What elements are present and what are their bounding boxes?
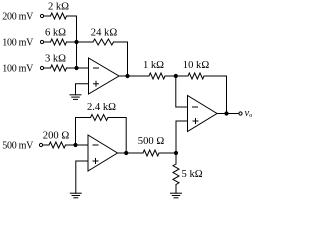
svg-text:2.4 kΩ: 2.4 kΩ	[87, 102, 116, 113]
wire node row2 to R4	[77, 41, 94, 43]
resistor R1 2 kOhm	[51, 13, 67, 19]
wire R6 to U3 output node	[204, 76, 227, 114]
terminal source 1	[40, 14, 43, 17]
svg-text:100 mV: 100 mV	[2, 38, 34, 49]
U3 plus sign	[193, 120, 198, 122]
wire terminal2 to R2	[44, 41, 51, 43]
resistor R8 2.4 kOhm feedback U2	[91, 115, 109, 121]
wire R2 to bus	[67, 41, 77, 43]
junction node bus row2	[74, 40, 78, 44]
svg-text:6 kΩ: 6 kΩ	[45, 28, 66, 39]
ground U2 plus input	[70, 192, 81, 194]
ground node C divider	[171, 192, 182, 194]
U3 minus sign	[193, 106, 198, 108]
terminal source 3	[40, 66, 43, 69]
wire R7 to node D	[66, 144, 76, 146]
terminal source 2	[40, 40, 43, 43]
wire node C to R10	[175, 153, 177, 164]
resistor R5 1 kOhm	[149, 73, 165, 79]
junction node U2 output	[124, 151, 128, 155]
wire U3 plus input down to node C	[176, 121, 188, 153]
svg-text:3 kΩ: 3 kΩ	[45, 54, 66, 65]
U2 minus sign	[93, 144, 98, 146]
wire U1 output	[119, 75, 149, 77]
wire R10 to ground	[175, 185, 177, 194]
terminal output vo	[239, 112, 242, 115]
U1 minus sign	[94, 67, 99, 69]
svg-text:100 mV: 100 mV	[2, 64, 34, 75]
wire R8 to U2 output node	[108, 118, 126, 154]
svg-text:200 Ω: 200 Ω	[43, 131, 70, 142]
junction node B	[174, 74, 178, 78]
wire node D to U2 minus input	[76, 144, 89, 146]
wire bus row2 to row3	[76, 42, 78, 68]
resistor R7 200 Ohm	[49, 142, 66, 148]
U2 plus sign	[93, 160, 98, 162]
junction node U3 output	[224, 111, 228, 115]
svg-text:200 mV: 200 mV	[2, 12, 34, 23]
wire U2 output	[118, 152, 144, 154]
junction node U1 output	[125, 74, 129, 78]
wire terminal3 to R3	[44, 67, 51, 69]
svg-text:5 kΩ: 5 kΩ	[182, 169, 203, 180]
resistor R10 5 kOhm	[173, 164, 179, 185]
junction node D inverting input U2	[73, 143, 77, 147]
wire node B down to U3 minus input	[176, 76, 188, 107]
svg-text:500 mV: 500 mV	[2, 141, 34, 152]
resistor R6 10 kOhm feedback U3	[188, 73, 204, 79]
wire U2 plus input to ground	[76, 161, 88, 193]
resistor R9 500 Ohm	[143, 150, 159, 156]
U1 plus sign	[94, 83, 99, 85]
wire terminal1 to R1	[44, 15, 51, 17]
svg-text:24 kΩ: 24 kΩ	[91, 28, 118, 39]
junction node C noninverting input U3	[174, 151, 178, 155]
wire R1 to bus	[67, 16, 77, 42]
resistor R4 24 kOhm feedback U1	[93, 39, 114, 45]
wire terminal4 to R7	[43, 144, 49, 146]
wire R9 to node C	[159, 152, 176, 154]
svg-text:10 kΩ: 10 kΩ	[183, 60, 210, 71]
ground U1 plus input	[70, 94, 81, 96]
op-amp U3	[188, 96, 218, 132]
wire R4 to U1 output node	[114, 42, 128, 76]
svg-text:500 Ω: 500 Ω	[138, 136, 165, 147]
terminal source 4	[39, 143, 42, 146]
junction node A inverting input U1	[74, 66, 78, 70]
resistor R2 6 kOhm	[51, 39, 67, 45]
wire R3 to node A	[67, 67, 77, 69]
wire R5 to node B	[165, 75, 188, 77]
wire U1 plus input to ground	[76, 84, 89, 95]
svg-text:vo: vo	[245, 108, 253, 119]
resistor R3 3 kOhm	[51, 65, 67, 71]
svg-text:1 kΩ: 1 kΩ	[143, 60, 164, 71]
wire U3 output	[217, 113, 239, 115]
wire node A to U1 minus input	[77, 67, 89, 69]
op-amp U2	[88, 135, 118, 171]
svg-text:2 kΩ: 2 kΩ	[48, 2, 69, 13]
wire node D up to R8	[76, 118, 91, 146]
op-amp U1	[89, 58, 120, 94]
